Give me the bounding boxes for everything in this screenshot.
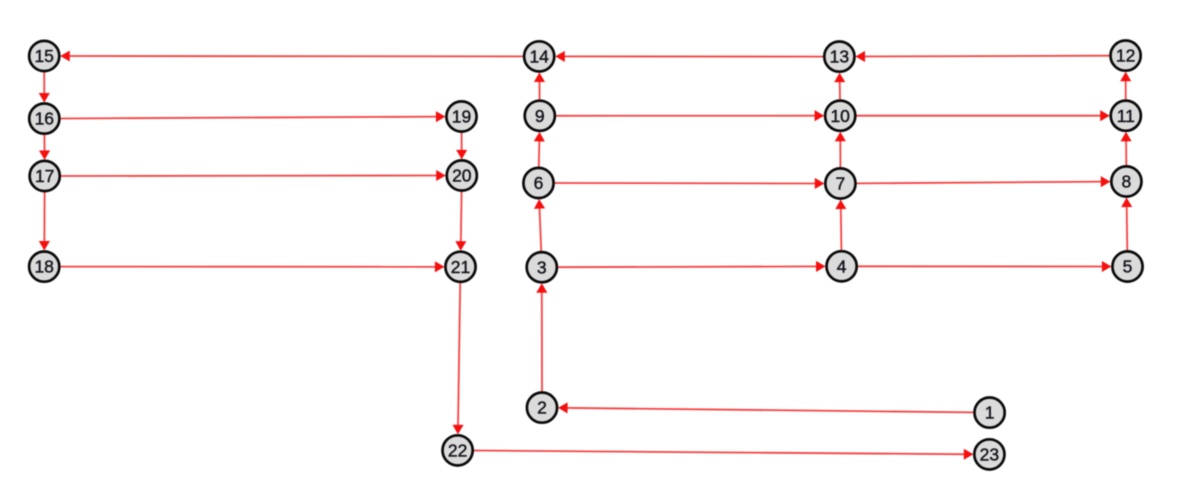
wire edge 17->18 bbox=[43, 192, 45, 249]
wire edge 9->10 bbox=[556, 115, 823, 117]
node 7 bbox=[825, 168, 855, 198]
wire edge 17->20 bbox=[61, 175, 444, 178]
wire edge 14->15 bbox=[62, 55, 523, 57]
svg-text:2: 2 bbox=[537, 398, 547, 418]
svg-text:5: 5 bbox=[1123, 257, 1133, 277]
wire edge 5->8 bbox=[1126, 199, 1129, 250]
svg-text:18: 18 bbox=[34, 257, 53, 277]
wire edge 10->11 bbox=[857, 115, 1109, 117]
wire edge 4->5 bbox=[858, 265, 1110, 267]
svg-text:3: 3 bbox=[537, 257, 547, 277]
svg-text:7: 7 bbox=[836, 174, 846, 194]
wire edge 13->14 bbox=[557, 55, 823, 57]
wire edge 12->13 bbox=[857, 55, 1109, 58]
wire edge 3->4 bbox=[558, 265, 824, 268]
node 3 bbox=[527, 252, 557, 282]
svg-text:15: 15 bbox=[34, 46, 53, 66]
node 8 bbox=[1111, 166, 1141, 196]
node 16 bbox=[29, 104, 59, 134]
wire edge 9->14 bbox=[538, 74, 540, 100]
wire edge 6->9 bbox=[538, 133, 541, 166]
svg-text:13: 13 bbox=[830, 47, 849, 67]
node 22 bbox=[443, 435, 473, 465]
wire edge 7->8 bbox=[857, 182, 1109, 184]
wire edge 4->7 bbox=[840, 201, 843, 250]
svg-text:1: 1 bbox=[985, 403, 995, 423]
svg-text:19: 19 bbox=[452, 107, 471, 127]
wire edge 6->7 bbox=[555, 182, 823, 185]
wire edge 8->11 bbox=[1125, 133, 1127, 165]
node 15 bbox=[29, 41, 59, 71]
wire edge 10->13 bbox=[839, 74, 841, 99]
wire edge 18->21 bbox=[61, 266, 444, 268]
svg-text:22: 22 bbox=[448, 441, 467, 461]
svg-text:4: 4 bbox=[837, 256, 847, 276]
node 2 bbox=[527, 393, 557, 423]
node 4 bbox=[827, 251, 857, 281]
svg-text:14: 14 bbox=[529, 47, 549, 67]
wire edge 1->2 bbox=[559, 408, 973, 413]
node 5 bbox=[1112, 251, 1142, 281]
wire edge 11->12 bbox=[1125, 73, 1127, 99]
svg-text:6: 6 bbox=[534, 173, 544, 193]
wire edge 15->16 bbox=[43, 72, 45, 101]
node 18 bbox=[29, 252, 59, 282]
wire edge 16->19 bbox=[61, 117, 444, 119]
node 21 bbox=[445, 252, 475, 282]
svg-text:23: 23 bbox=[980, 445, 999, 465]
node 17 bbox=[30, 161, 60, 191]
svg-text:21: 21 bbox=[451, 257, 470, 277]
node 14 bbox=[524, 41, 554, 71]
svg-text:11: 11 bbox=[1117, 106, 1135, 126]
svg-text:17: 17 bbox=[35, 166, 54, 186]
wire edge 22->23 bbox=[474, 451, 972, 455]
svg-text:10: 10 bbox=[830, 106, 850, 126]
wire edge 2->3 bbox=[541, 285, 543, 392]
svg-text:12: 12 bbox=[1116, 46, 1135, 66]
wire edge 7->10 bbox=[839, 133, 841, 167]
svg-text:8: 8 bbox=[1122, 172, 1132, 192]
node 13 bbox=[824, 42, 854, 72]
node 10 bbox=[825, 101, 855, 131]
wire edge 19->20 bbox=[461, 133, 463, 158]
wire edge 3->6 bbox=[539, 200, 541, 250]
svg-text:20: 20 bbox=[452, 166, 472, 186]
node 23 bbox=[974, 439, 1004, 469]
node 9 bbox=[525, 101, 555, 131]
svg-text:16: 16 bbox=[35, 109, 54, 129]
node 12 bbox=[1111, 41, 1141, 71]
wire edge 20->21 bbox=[460, 192, 463, 250]
node 19 bbox=[446, 101, 476, 131]
wire edge 16->17 bbox=[43, 135, 45, 159]
wire edge 21->22 bbox=[458, 283, 460, 433]
node 6 bbox=[523, 168, 553, 198]
node 11 bbox=[1111, 101, 1141, 131]
node 20 bbox=[447, 160, 477, 190]
node 1 bbox=[975, 398, 1005, 428]
svg-text:9: 9 bbox=[535, 106, 545, 126]
